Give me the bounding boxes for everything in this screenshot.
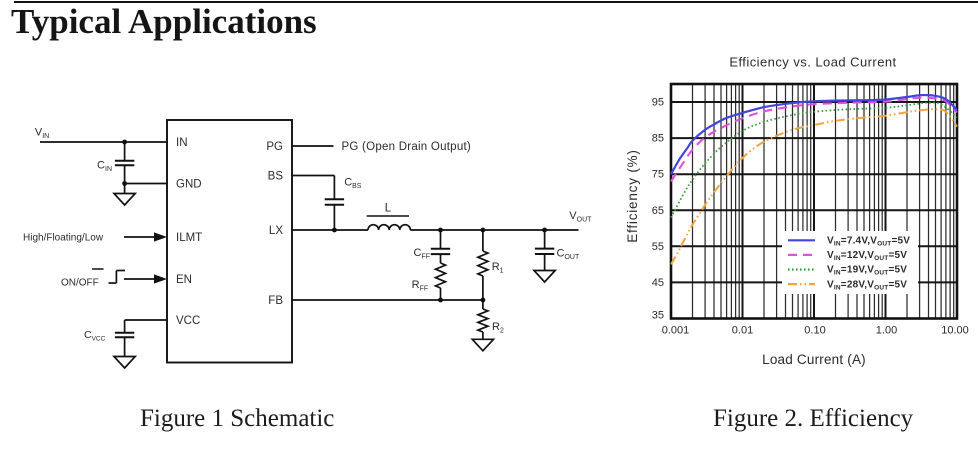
svg-text:PG: PG <box>266 141 283 153</box>
svg-text:35: 35 <box>652 310 664 322</box>
svg-text:CIN: CIN <box>97 160 112 174</box>
svg-text:Efficiency vs. Load Current: Efficiency vs. Load Current <box>729 55 896 70</box>
svg-text:65: 65 <box>652 205 664 217</box>
svg-text:VCC: VCC <box>176 315 200 327</box>
svg-text:75: 75 <box>652 169 664 181</box>
svg-text:95: 95 <box>652 97 664 109</box>
svg-text:55: 55 <box>652 241 664 253</box>
svg-text:0.10: 0.10 <box>804 325 825 337</box>
svg-text:R2: R2 <box>492 321 504 335</box>
svg-text:L: L <box>385 203 392 215</box>
svg-text:High/Floating/Low: High/Floating/Low <box>23 233 104 244</box>
svg-text:ILMT: ILMT <box>176 232 202 244</box>
svg-text:COUT: COUT <box>557 248 580 262</box>
svg-text:45: 45 <box>652 277 664 289</box>
svg-text:0.01: 0.01 <box>732 325 753 337</box>
svg-text:85: 85 <box>652 133 664 145</box>
svg-text:Load Current (A): Load Current (A) <box>762 352 866 367</box>
svg-text:0.001: 0.001 <box>662 325 690 337</box>
svg-text:GND: GND <box>176 179 202 191</box>
svg-text:VIN: VIN <box>35 127 49 141</box>
svg-text:IN: IN <box>176 137 188 149</box>
svg-text:Efficiency (%): Efficiency (%) <box>625 149 640 242</box>
svg-text:CBS: CBS <box>344 177 362 191</box>
svg-text:LX: LX <box>269 225 283 237</box>
svg-text:CFF: CFF <box>413 247 430 261</box>
svg-text:BS: BS <box>268 171 284 183</box>
svg-text:R1: R1 <box>492 261 504 275</box>
svg-text:PG (Open Drain Output): PG (Open Drain Output) <box>342 141 472 153</box>
svg-text:10.00: 10.00 <box>941 325 969 337</box>
svg-text:RFF: RFF <box>412 279 429 293</box>
svg-text:CVCC: CVCC <box>84 329 106 343</box>
svg-text:VOUT: VOUT <box>569 210 592 224</box>
svg-text:EN: EN <box>176 274 192 286</box>
svg-text:1.00: 1.00 <box>876 325 897 337</box>
svg-text:ON/OFF: ON/OFF <box>61 278 99 289</box>
svg-text:FB: FB <box>268 295 283 307</box>
